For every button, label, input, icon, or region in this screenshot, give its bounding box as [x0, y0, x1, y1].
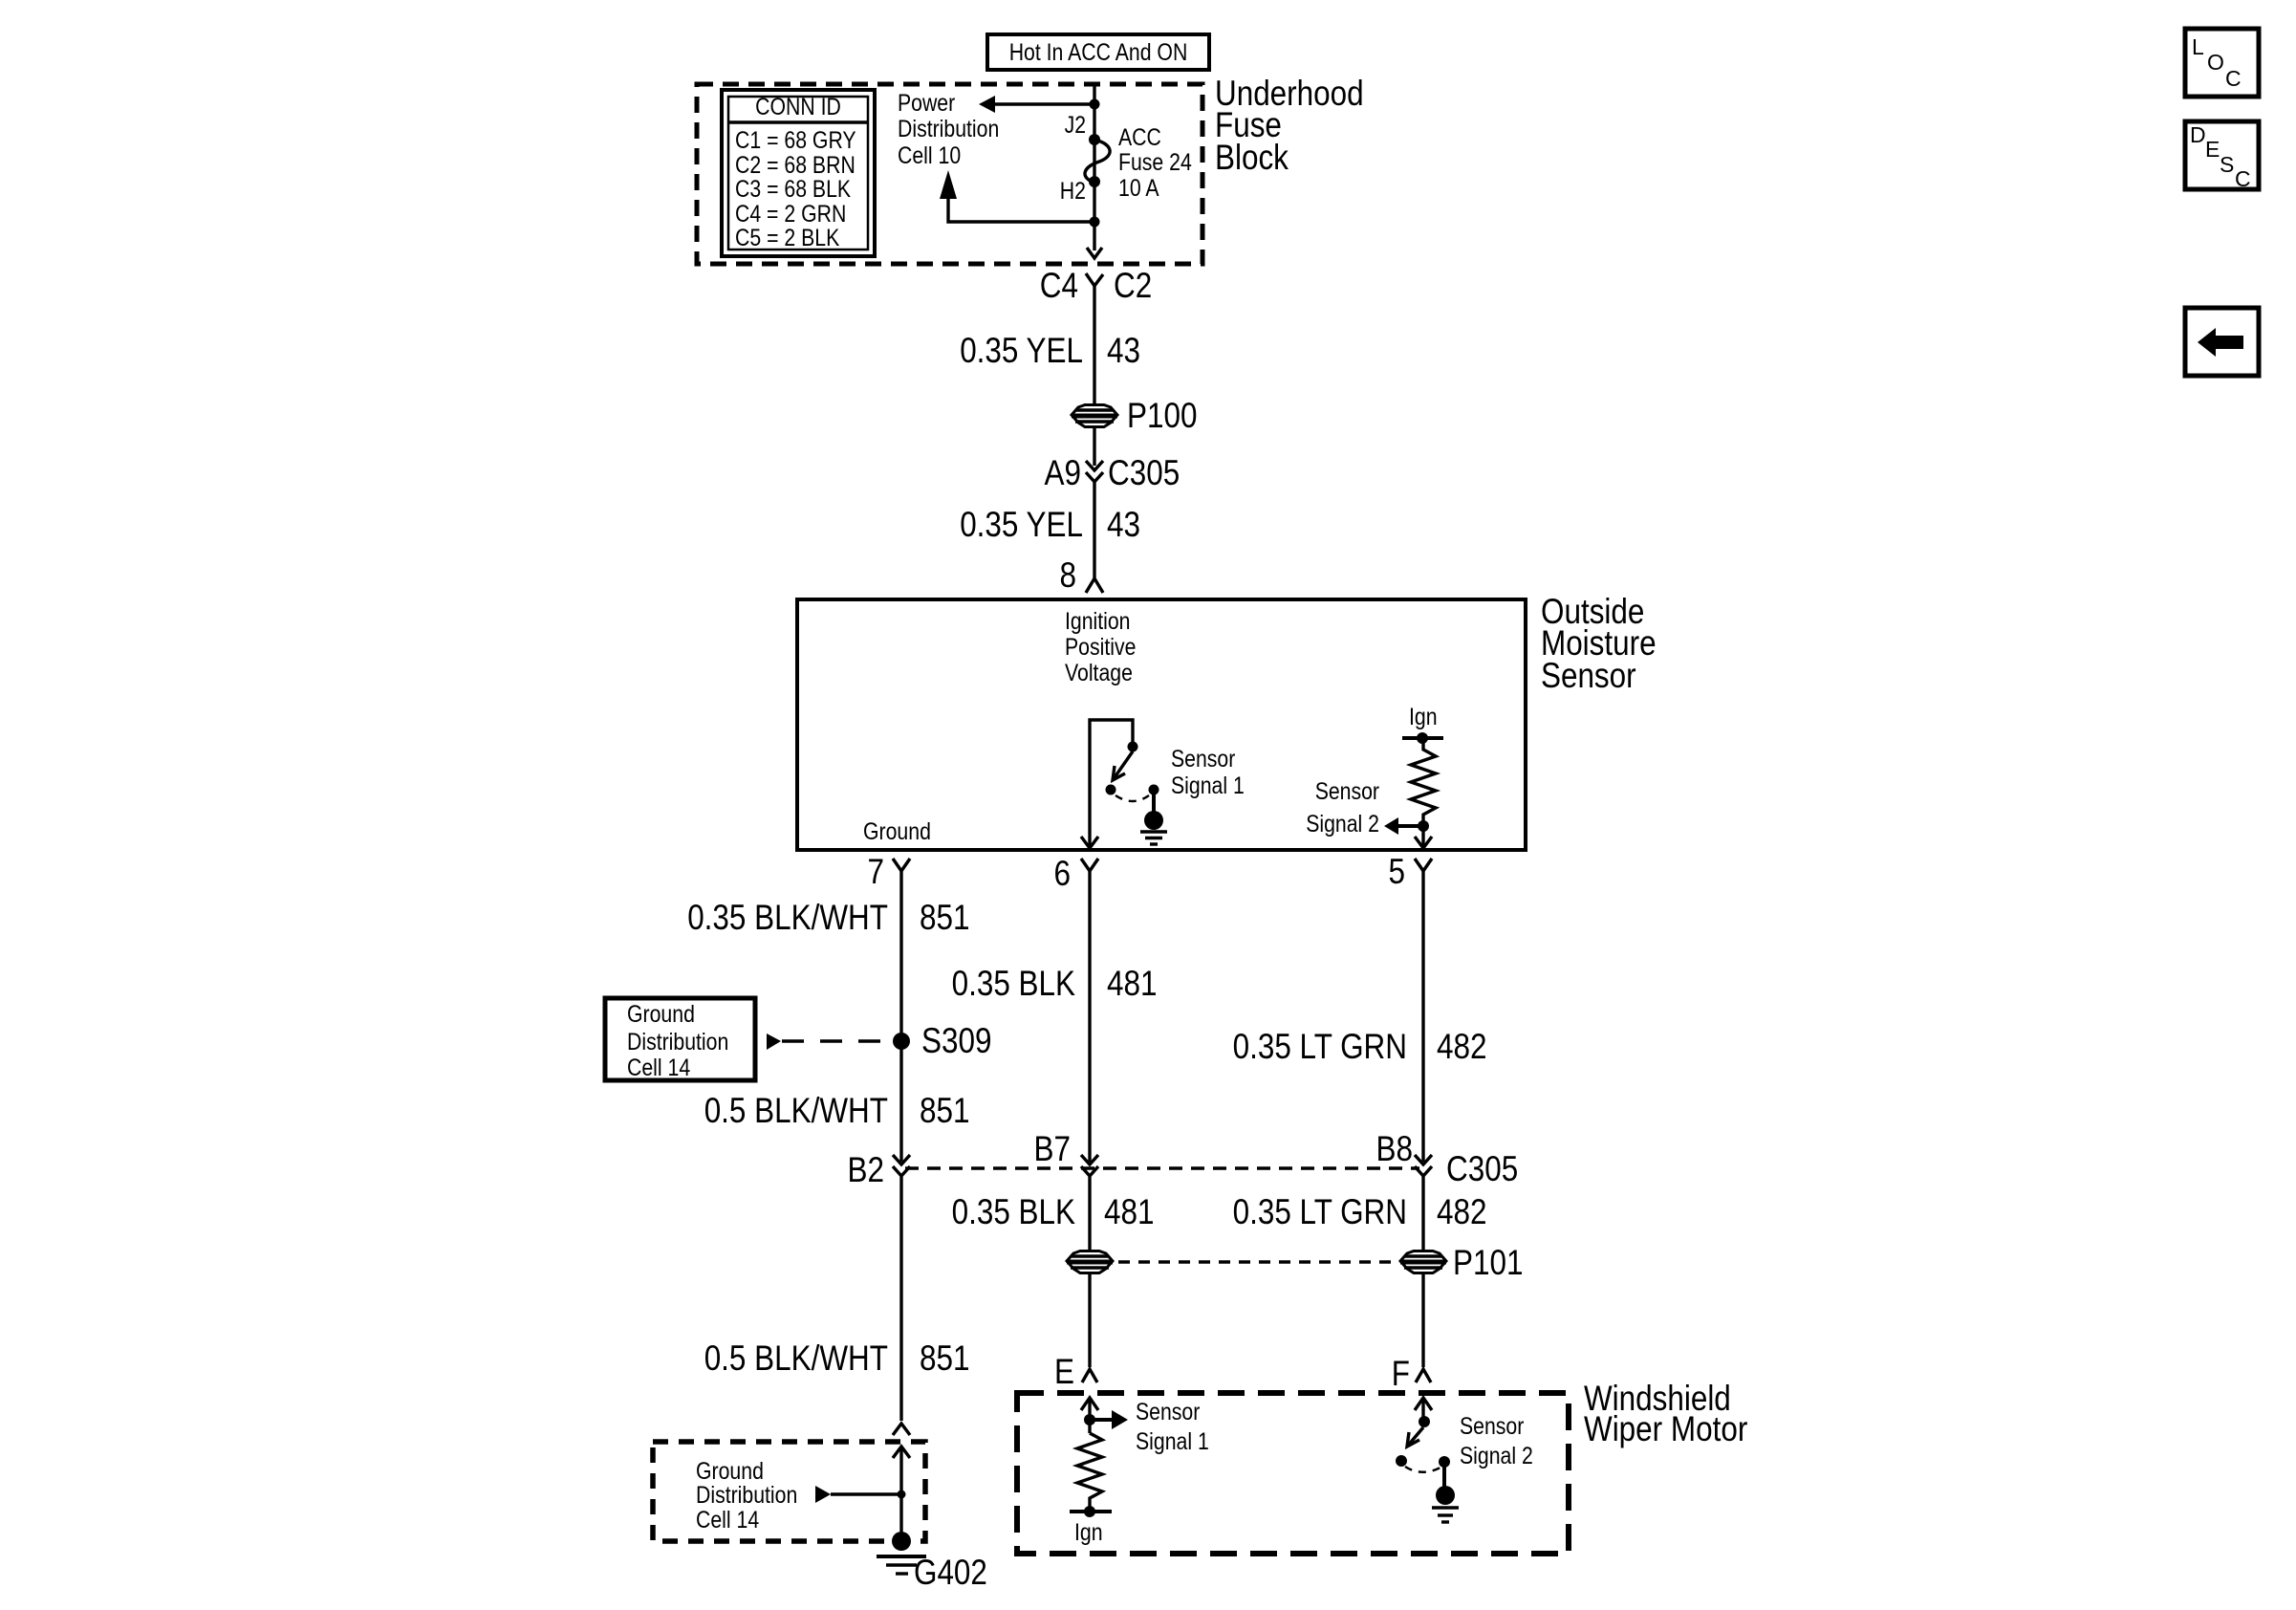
- svg-text:Cell 14: Cell 14: [627, 1055, 690, 1081]
- splice reference arrow to G402 wire: [815, 1486, 831, 1503]
- svg-text:0.35 YEL: 0.35 YEL: [960, 505, 1083, 544]
- svg-text:Fuse 24: Fuse 24: [1118, 149, 1192, 176]
- wiper sensor signal 2 switch: [1396, 1398, 1533, 1522]
- Power Distribution Cell 10 label: [898, 90, 999, 169]
- svg-text:S309: S309: [921, 1021, 992, 1060]
- connector C4 / C2: [1040, 266, 1152, 305]
- svg-text:Ign: Ign: [1074, 1519, 1103, 1546]
- svg-text:Block: Block: [1215, 138, 1289, 177]
- svg-text:Sensor: Sensor: [1171, 746, 1235, 772]
- svg-text:Ign: Ign: [1409, 704, 1438, 730]
- wire: P101 to pin F: [1421, 1273, 1424, 1367]
- svg-text:Distribution: Distribution: [898, 116, 999, 142]
- DESC icon box: [2185, 121, 2259, 191]
- svg-text:Signal 2: Signal 2: [1460, 1443, 1533, 1469]
- svg-text:C4: C4: [1040, 266, 1078, 305]
- connector B8 / C305: [1376, 1129, 1519, 1188]
- splice S309: [893, 1033, 910, 1050]
- svg-text:8: 8: [1060, 555, 1077, 595]
- svg-text:Hot In ACC And ON: Hot In ACC And ON: [1009, 39, 1188, 66]
- svg-text:Power: Power: [898, 90, 955, 117]
- svg-text:Ground: Ground: [863, 818, 931, 845]
- svg-text:P100: P100: [1127, 396, 1198, 435]
- svg-text:C1 = 68 GRY: C1 = 68 GRY: [735, 127, 856, 154]
- svg-text:J2: J2: [1065, 112, 1086, 139]
- Hot In ACC And ON box: [987, 34, 1209, 70]
- node: junction to power distribution: [1090, 99, 1100, 110]
- sensor signal 2 resistor (inside sensor): [1306, 704, 1443, 848]
- svg-text:CONN ID: CONN ID: [755, 94, 841, 120]
- pin 7 connector: [868, 852, 911, 891]
- svg-text:0.35 BLK: 0.35 BLK: [952, 1192, 1076, 1231]
- svg-text:Signal 2: Signal 2: [1306, 811, 1379, 838]
- svg-text:0.5 BLK/WHT: 0.5 BLK/WHT: [704, 1091, 888, 1130]
- wire: P101 to pin E: [1088, 1273, 1091, 1367]
- Windshield Wiper Motor dashed box: [1017, 1393, 1569, 1554]
- grommet P101 (right, wire 5): [1400, 1243, 1524, 1282]
- svg-text:C3 = 68 BLK: C3 = 68 BLK: [735, 176, 851, 203]
- pin 5 connector: [1389, 852, 1433, 891]
- svg-text:H2: H2: [1060, 178, 1086, 205]
- svg-text:0.35 LT GRN: 0.35 LT GRN: [1233, 1027, 1407, 1066]
- svg-text:ACC: ACC: [1118, 124, 1161, 151]
- CONN ID table: [722, 90, 875, 256]
- svg-text:F: F: [1392, 1354, 1410, 1393]
- svg-text:43: 43: [1107, 505, 1140, 544]
- back arrow icon box: [2185, 308, 2259, 376]
- sensor signal 1 switch (inside sensor): [1081, 720, 1245, 848]
- svg-text:Distribution: Distribution: [627, 1029, 728, 1055]
- Underhood Fuse Block dashed box: [697, 84, 1202, 264]
- svg-text:B2: B2: [848, 1150, 885, 1189]
- wire: hot feed into fuse block: [1093, 84, 1095, 250]
- svg-text:851: 851: [920, 1091, 970, 1130]
- svg-text:Signal 1: Signal 1: [1171, 772, 1245, 799]
- svg-text:Voltage: Voltage: [1065, 660, 1133, 686]
- node on ground wire: [898, 1490, 906, 1499]
- svg-text:0.35 YEL: 0.35 YEL: [960, 331, 1083, 370]
- svg-text:10 A: 10 A: [1118, 175, 1159, 202]
- svg-text:Cell 14: Cell 14: [696, 1507, 759, 1534]
- svg-text:B8: B8: [1376, 1129, 1414, 1168]
- svg-text:S: S: [2220, 152, 2234, 177]
- svg-text:Sensor: Sensor: [1136, 1399, 1200, 1425]
- svg-text:0.5 BLK/WHT: 0.5 BLK/WHT: [704, 1338, 888, 1378]
- svg-text:482: 482: [1437, 1192, 1487, 1231]
- wire: 0.35 BLK 481 (B7 to P101): [1088, 1176, 1091, 1251]
- wire: power distribution feed arrow: [992, 102, 1094, 105]
- splice reference arrow to S309: [767, 1033, 781, 1050]
- wire: 0.5 BLK/WHT 851 (B2 to ground dist): [899, 1176, 902, 1421]
- svg-text:C: C: [2225, 66, 2242, 91]
- svg-text:Sensor: Sensor: [1541, 656, 1636, 695]
- svg-text:Signal 1: Signal 1: [1136, 1428, 1209, 1455]
- Ground Distribution Cell 14 box (lower, dashed): [653, 1442, 925, 1541]
- node H2: [1089, 176, 1100, 187]
- dashed link between P101 grommets: [1118, 1260, 1395, 1263]
- svg-text:Positive: Positive: [1065, 634, 1136, 661]
- svg-text:Cell 10: Cell 10: [898, 142, 961, 169]
- svg-text:L: L: [2192, 34, 2204, 59]
- svg-text:C305: C305: [1108, 453, 1180, 492]
- svg-text:Ignition: Ignition: [1065, 608, 1131, 635]
- arrow out of fuse block (down): [1087, 248, 1102, 258]
- pin E connector: [1054, 1352, 1097, 1391]
- Outside Moisture Sensor box: [797, 599, 1526, 850]
- wire: 0.35 LT GRN 482 (pin5 to B8): [1421, 871, 1424, 1162]
- pin F connector: [1392, 1354, 1431, 1393]
- connector B7: [1034, 1129, 1099, 1176]
- svg-text:C: C: [2235, 166, 2251, 191]
- svg-text:E: E: [1054, 1352, 1074, 1391]
- fuse ACC Fuse 24 10 A: [1085, 140, 1110, 183]
- wire: 0.35 LT GRN 482 (B8 to P101): [1421, 1176, 1424, 1251]
- grommet P101 (left, wire 6): [1067, 1251, 1113, 1273]
- Ignition Positive Voltage label: [1065, 608, 1136, 686]
- wire: 0.35 BLK/WHT 851 (pin7 to B2): [899, 871, 902, 1162]
- svg-text:C305: C305: [1446, 1149, 1518, 1188]
- Ground Distribution Cell 14 box (upper): [605, 998, 755, 1081]
- svg-text:B7: B7: [1034, 1129, 1072, 1168]
- svg-text:C5 = 2 BLK: C5 = 2 BLK: [735, 225, 840, 251]
- svg-text:851: 851: [920, 1338, 970, 1378]
- node: junction below fuse: [1090, 217, 1100, 228]
- svg-text:O: O: [2207, 50, 2224, 75]
- svg-text:C2 = 68 BRN: C2 = 68 BRN: [735, 152, 856, 179]
- wiper sensor signal 1 resistor: [1070, 1398, 1209, 1546]
- wire: fused output to power distribution cell arrow: [948, 197, 1094, 222]
- wire: 0.35 YEL 43: [1093, 286, 1095, 466]
- in-line connector C305 row (dashed): [905, 1166, 1419, 1169]
- svg-text:Ground: Ground: [696, 1458, 764, 1485]
- svg-text:P101: P101: [1453, 1243, 1524, 1282]
- svg-text:Sensor: Sensor: [1315, 778, 1379, 805]
- connector B2: [848, 1150, 911, 1189]
- wire 7 chevron above ground dist box: [893, 1424, 910, 1435]
- svg-text:Ground: Ground: [627, 1001, 695, 1028]
- ground G402: [877, 1532, 987, 1592]
- svg-text:Wiper Motor: Wiper Motor: [1584, 1409, 1747, 1448]
- grommet P100: [1072, 396, 1198, 435]
- connector A9 / C305: [1045, 453, 1180, 492]
- svg-text:851: 851: [920, 898, 970, 937]
- svg-text:Sensor: Sensor: [1460, 1413, 1524, 1440]
- wire: 0.35 BLK 481 (pin6 to B7): [1088, 871, 1091, 1162]
- svg-text:D: D: [2190, 122, 2206, 147]
- node J2: [1089, 134, 1100, 145]
- svg-text:C2: C2: [1114, 266, 1152, 305]
- svg-text:0.35 LT GRN: 0.35 LT GRN: [1233, 1192, 1407, 1231]
- LOC icon box: [2185, 29, 2259, 97]
- svg-text:C4 = 2 GRN: C4 = 2 GRN: [735, 201, 846, 228]
- svg-text:G402: G402: [914, 1553, 987, 1592]
- svg-text:6: 6: [1054, 854, 1072, 893]
- Underhood Fuse Block label: [1215, 74, 1364, 177]
- svg-text:0.35 BLK/WHT: 0.35 BLK/WHT: [687, 898, 888, 937]
- svg-text:5: 5: [1389, 852, 1406, 891]
- svg-text:0.35 BLK: 0.35 BLK: [952, 964, 1076, 1003]
- wire: 0.35 YEL 43 (lower): [1093, 482, 1095, 579]
- pin 6 connector: [1054, 854, 1099, 893]
- svg-text:E: E: [2205, 137, 2220, 162]
- svg-text:482: 482: [1437, 1027, 1487, 1066]
- svg-text:A9: A9: [1045, 453, 1082, 492]
- pin 8 connector into sensor: [1060, 555, 1104, 595]
- svg-text:481: 481: [1104, 1192, 1155, 1231]
- svg-text:7: 7: [868, 852, 885, 891]
- svg-text:43: 43: [1107, 331, 1140, 370]
- svg-text:481: 481: [1107, 964, 1158, 1003]
- svg-text:Distribution: Distribution: [696, 1482, 797, 1509]
